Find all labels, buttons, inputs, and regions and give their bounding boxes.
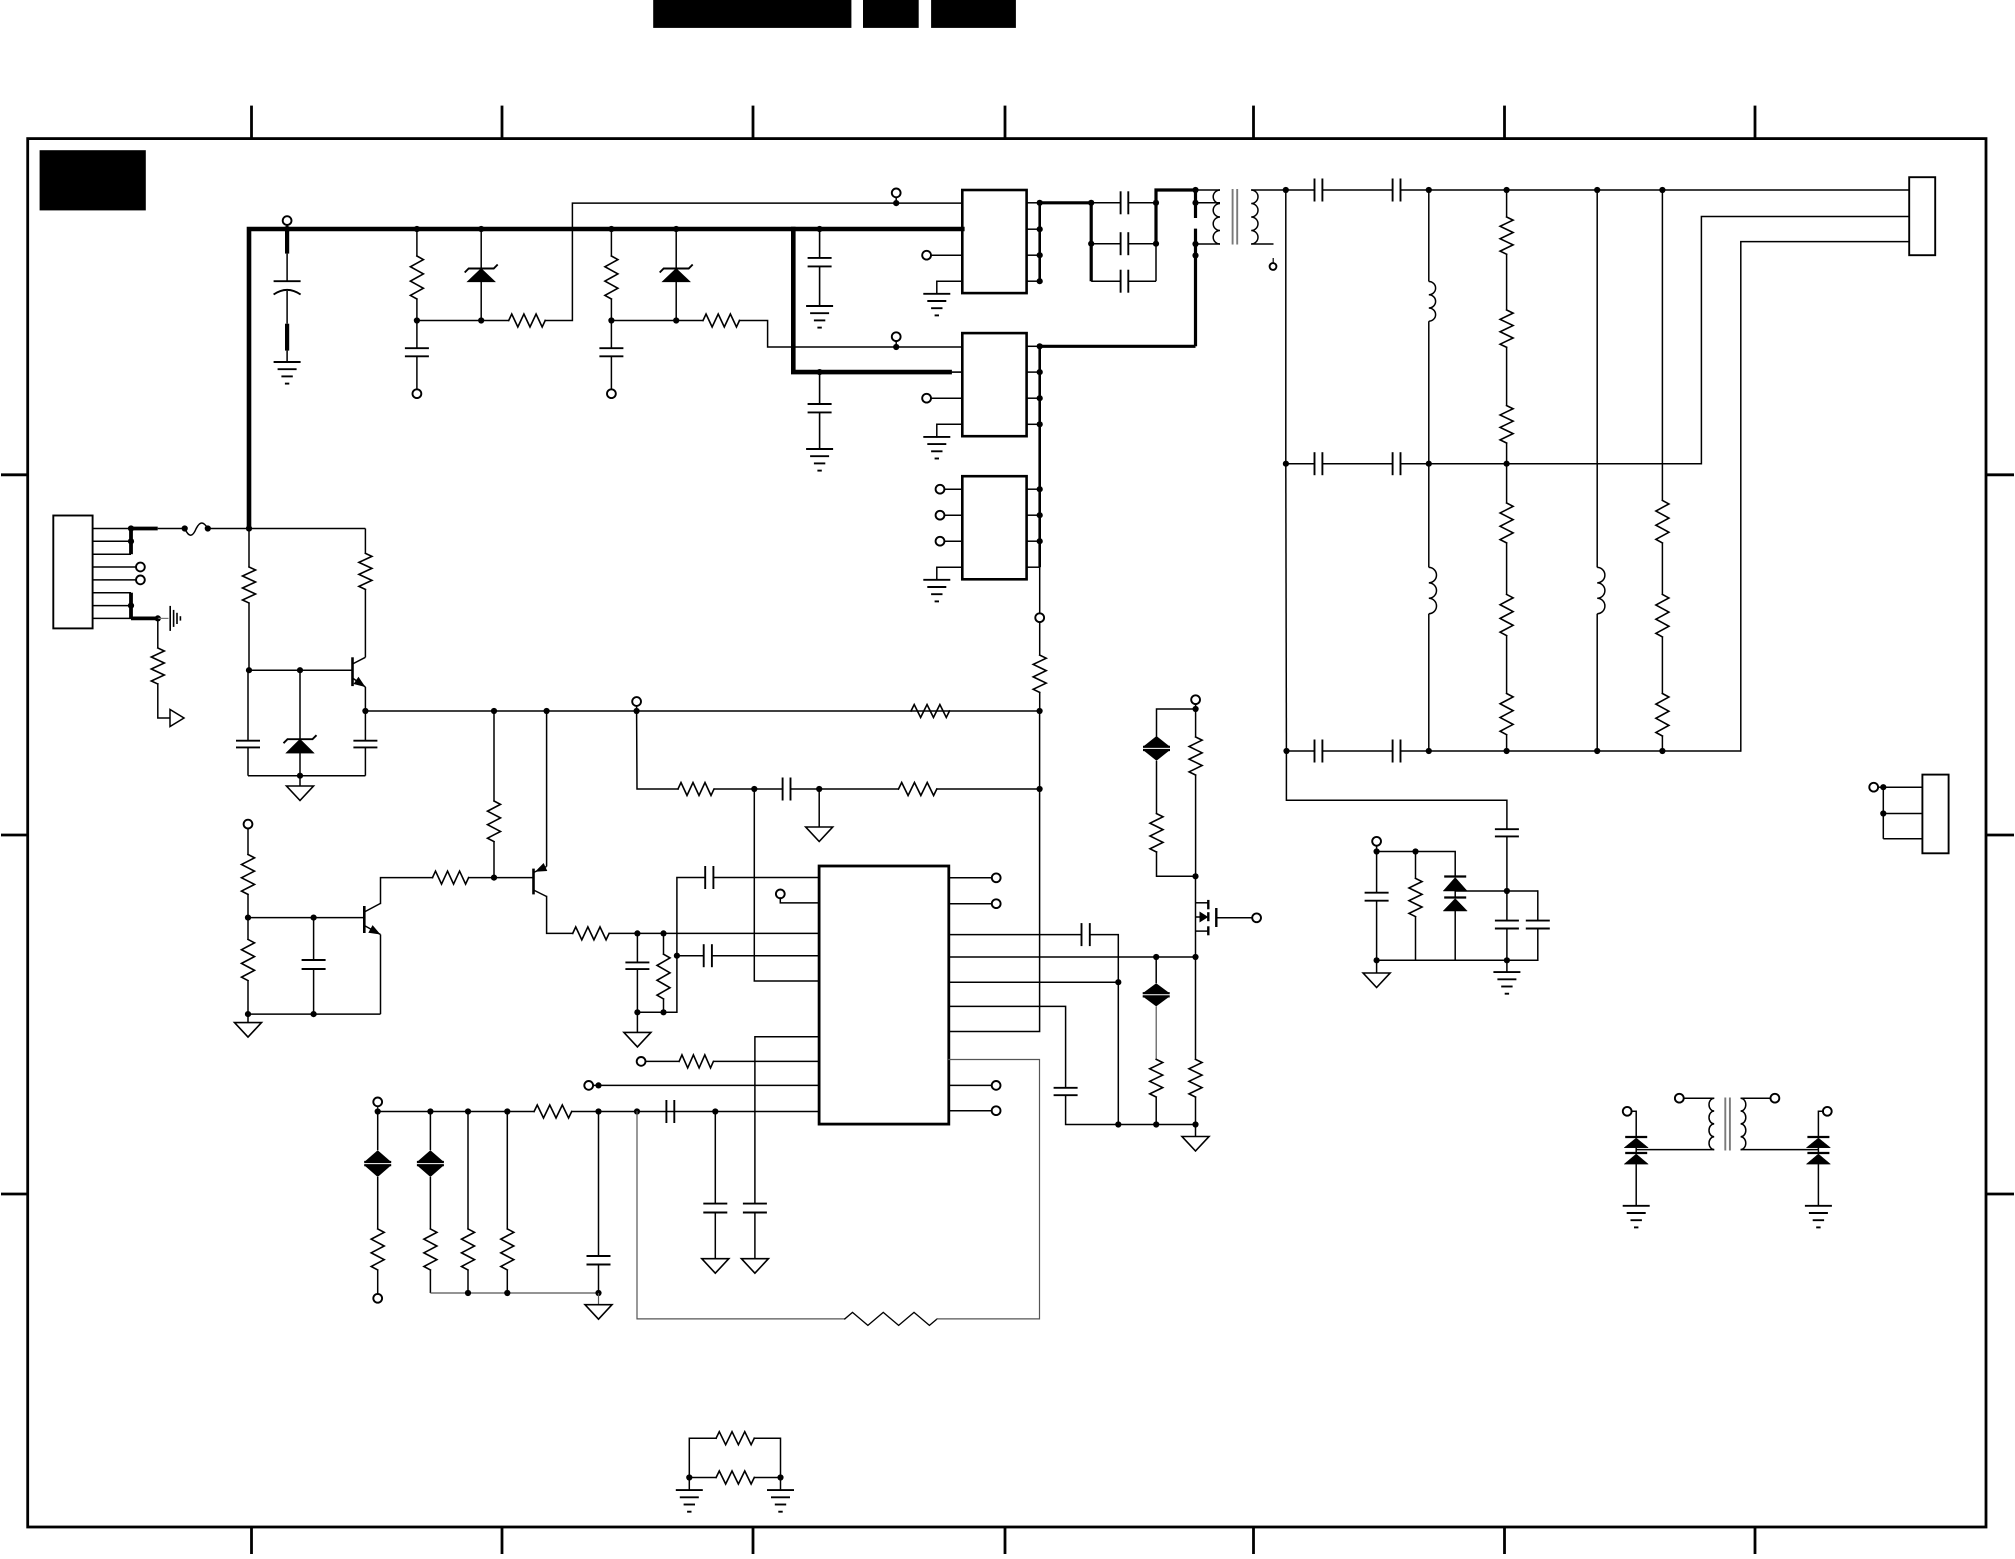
- ground U2 (earth): [923, 437, 950, 459]
- node ref rail 3: [595, 1290, 601, 1296]
- resistor R34: [1150, 814, 1163, 852]
- capacitor C1 electrolytic: [274, 229, 301, 362]
- wire fuse line to startup: [249, 528, 365, 530]
- node osc 1: [751, 786, 757, 792]
- wire CN1 pin3 stub: [93, 553, 131, 555]
- wire fb bus mid: [1039, 711, 1041, 789]
- node feedback 1: [893, 200, 899, 206]
- node zener D1 bottom: [478, 317, 484, 323]
- resistor R5 bleeder: [151, 648, 164, 684]
- wire R15 to node: [714, 788, 754, 790]
- node row3 v1: [1426, 748, 1432, 754]
- wire snub2 rail: [1377, 959, 1507, 961]
- wire snubber rail 2: [611, 320, 703, 322]
- wire snub2 top: [1377, 845, 1456, 876]
- node Q1 base rail left: [246, 667, 252, 673]
- node p9 n1: [375, 1108, 381, 1114]
- node p9 n2: [427, 1108, 433, 1114]
- capacitor C2 snubber: [405, 321, 429, 390]
- node sec low: [1283, 748, 1289, 754]
- node fb bus osc: [1037, 786, 1043, 792]
- node bus filter cap top: [817, 226, 823, 232]
- node p8 junction: [595, 1082, 601, 1088]
- node row1 v4: [1659, 187, 1665, 193]
- ground U3 (earth): [923, 580, 950, 602]
- resistor R2: [605, 229, 618, 321]
- wire U4 p8: [593, 1084, 819, 1086]
- wire opto bus U2-U3 (thick): [1038, 346, 1041, 567]
- node shunt right: [777, 1474, 783, 1480]
- wire CN3 pin3 stub: [1883, 838, 1922, 840]
- node zener D2 bottom: [673, 317, 679, 323]
- node p9 n7: [712, 1108, 718, 1114]
- capacitor C4: [236, 670, 260, 776]
- ground signal source rail: [1182, 1125, 1209, 1152]
- wire CN3 pin2 stub: [1883, 813, 1922, 815]
- ground snub2 (earth): [1493, 960, 1520, 993]
- suppressor Z4: [1143, 957, 1170, 1006]
- wire Q3 collector: [547, 897, 573, 934]
- wire CN1 pin2 stub: [93, 540, 131, 542]
- terminal U1 p3: [922, 251, 962, 260]
- op-amp U2 optocoupler: [962, 333, 1026, 436]
- resistor R9: [488, 801, 501, 842]
- node rail 2: [1153, 1121, 1159, 1127]
- node cap bus MR: [1153, 241, 1159, 247]
- terminal snubber 2: [607, 389, 616, 398]
- wire U1 r1 link (thick): [1040, 201, 1092, 204]
- capacitor C5: [353, 711, 377, 776]
- wire C24 to source bus: [1090, 935, 1119, 1125]
- wire CN1 pin7 stub: [93, 605, 131, 607]
- wire CN3 tie: [1878, 787, 1884, 839]
- wire Vcc terminal stub: [636, 706, 638, 711]
- node row2 v1: [1426, 461, 1432, 467]
- wire bulk cap stub: [286, 225, 288, 229]
- wire fb loop (gray): [637, 1112, 845, 1319]
- node Vcc terminal: [634, 708, 640, 714]
- fuse F1: [185, 523, 208, 535]
- wire Q1 base rail: [249, 669, 353, 671]
- transformer T1 secondary winding: [1251, 190, 1286, 244]
- capacitor C7: [625, 933, 649, 1012]
- resistor R8 in Vcc line: [911, 705, 950, 718]
- wire U4 r4 gate drive: [949, 956, 1196, 958]
- wire U2 pin stubs right: [1027, 346, 1040, 424]
- node T1 tap2: [1192, 241, 1198, 247]
- capacitor C9: [704, 944, 712, 967]
- node mains junction: [246, 525, 252, 531]
- wire cap bus right (thick): [1156, 190, 1196, 244]
- wire startup right upper: [364, 529, 366, 554]
- node U2 r1: [1037, 343, 1043, 349]
- terminal CN3: [1869, 783, 1878, 792]
- wire CN1 neutral tie (thick): [131, 593, 158, 619]
- resistor R30: [424, 1177, 437, 1293]
- wire fuse to bus corner: [208, 528, 249, 530]
- capacitor C27: [1495, 829, 1519, 891]
- wire row3 riser to CN2: [1741, 242, 1909, 751]
- wire R13 to U4: [609, 932, 819, 934]
- terminal T2 p2: [1771, 1094, 1780, 1103]
- node R1 top on bus: [414, 226, 420, 232]
- terminal snubber 1: [413, 389, 422, 398]
- node comp node 2: [660, 930, 666, 936]
- node CN3 pin1: [1880, 784, 1886, 790]
- connector CN1: [53, 516, 92, 629]
- transistor Q2 (NPN): [364, 903, 380, 934]
- wire row3: [1429, 750, 1741, 752]
- wire feedback to opto 1: [545, 203, 896, 320]
- capacitor C25: [1054, 1088, 1119, 1125]
- node p9 n4: [504, 1108, 510, 1114]
- diode D8: [1806, 1137, 1830, 1148]
- resistor R31: [462, 1112, 475, 1294]
- wire fb loop right (gray): [937, 1060, 1039, 1319]
- node fuse left: [182, 525, 188, 531]
- resistor R23: [1500, 636, 1513, 751]
- capacitor C10: [754, 778, 819, 801]
- resistor R38: [1409, 852, 1422, 961]
- wire osc to U4 p5: [754, 789, 819, 981]
- ground shunt left (earth): [676, 1478, 703, 1512]
- node feedback 2: [893, 344, 899, 350]
- resistor R29: [371, 1177, 384, 1294]
- resistor R25: [1656, 543, 1669, 637]
- node C6 bottom: [311, 1011, 317, 1017]
- capacitor C11: [1091, 191, 1156, 214]
- resistor R32: [501, 1112, 514, 1294]
- wire feedback 1 into U1: [896, 202, 962, 204]
- capacitor C29: [1507, 891, 1550, 960]
- transformer T1 core: [1233, 189, 1238, 245]
- node Q1 emitter: [362, 708, 368, 714]
- wire snubber rail 1: [417, 320, 509, 322]
- terminal U3 p3: [936, 537, 963, 546]
- resistor R18: [1500, 190, 1513, 254]
- wire CN1 pin1 to fuse (thick): [131, 527, 158, 531]
- terminal bulk cap test point: [283, 216, 292, 225]
- inductor L1: [1429, 190, 1436, 464]
- transformer T2 primary: [1636, 1098, 1714, 1149]
- wire comp rail: [637, 1011, 677, 1013]
- wire chassis link: [158, 617, 169, 619]
- ground signal osc: [806, 789, 833, 842]
- node Vcc tap 1: [491, 708, 497, 714]
- wire row1 to CN2: [1429, 189, 1909, 191]
- resistor R6 startup: [243, 567, 256, 603]
- wire Z4 to R36 (gray): [1155, 1006, 1157, 1059]
- wire CN1 pin6 stub: [93, 592, 131, 594]
- wire feedback to opto 2: [740, 321, 897, 348]
- resistor R39: [689, 1432, 780, 1478]
- node Q3 base rail: [491, 875, 497, 881]
- terminal U4 r9b: [949, 1106, 1001, 1115]
- ground chassis CN1: [170, 606, 180, 631]
- terminal U2 p3: [922, 394, 962, 403]
- node U3 r1: [1037, 486, 1043, 492]
- resistor R11: [242, 828, 255, 917]
- zener diode D3: [284, 670, 317, 776]
- node U2 r4: [1037, 421, 1043, 427]
- terminal feedback 1: [892, 189, 901, 204]
- wire T2 d2 lead: [1818, 1111, 1823, 1137]
- op-amp U1 optocoupler: [962, 190, 1026, 293]
- node R14 bottom: [660, 1009, 666, 1015]
- wire chain v3 upper: [1596, 190, 1598, 567]
- node Vcc tap 2: [544, 708, 550, 714]
- ground signal D3: [287, 776, 314, 801]
- diode D6: [1624, 1137, 1648, 1148]
- node drain: [1192, 873, 1198, 879]
- node row3 v3: [1594, 748, 1600, 754]
- offpage arrow left: [170, 710, 184, 727]
- inductor L2: [1429, 464, 1437, 751]
- terminal T2 d2 top: [1823, 1107, 1832, 1116]
- wire T2 d1 lead: [1631, 1111, 1636, 1137]
- node rail 1: [1115, 1121, 1121, 1127]
- wire CN1 pin4 stub: [93, 566, 137, 568]
- transistor Q3 (PNP): [534, 863, 548, 896]
- node cap bus TL: [1088, 200, 1094, 206]
- node CN1 pin7: [128, 603, 134, 609]
- wire row2 riser to CN2: [1701, 217, 1909, 464]
- ground shunt right (earth): [767, 1478, 794, 1512]
- node drain snub: [1193, 706, 1199, 712]
- wire mains bus B+ (thick): [249, 229, 962, 529]
- ground T2 right (earth): [1805, 1206, 1832, 1228]
- transformer T1 primary winding: [1196, 190, 1221, 244]
- wire R34 corner: [1157, 852, 1196, 876]
- capacitor C18: [1287, 740, 1393, 763]
- resistor R22: [1500, 543, 1513, 636]
- resistor R19: [1500, 254, 1513, 347]
- terminal Vcc: [632, 697, 641, 706]
- wire bleeder to arrow: [158, 684, 170, 718]
- redaction box sheet label: [40, 150, 146, 210]
- capacitor C20: [743, 1204, 767, 1259]
- capacitor C8: [705, 866, 713, 889]
- wire snub left branch: [1157, 709, 1196, 736]
- ground signal snub2: [1363, 960, 1390, 987]
- redaction box title 1: [653, 0, 851, 28]
- redaction box title 2: [863, 0, 919, 28]
- wire Q1 emitter: [364, 687, 366, 711]
- terminal fb bus: [1035, 567, 1044, 622]
- node Q2 base rail left: [245, 915, 251, 921]
- terminal CN1 pin4: [136, 563, 145, 572]
- node zener D3 top: [297, 667, 303, 673]
- capacitor C6: [302, 918, 326, 1015]
- capacitor C14: [1286, 179, 1393, 202]
- terminal U3 p1: [936, 485, 963, 494]
- wire Q1 collector: [364, 589, 366, 657]
- wire C9 to U4: [677, 955, 819, 957]
- capacitor C22: [587, 1112, 611, 1294]
- wire U4 r6: [949, 1006, 1066, 1087]
- resistor R24: [1656, 500, 1669, 543]
- transistor Q4 (MOSFET): [1196, 876, 1217, 957]
- node p9 n5: [595, 1108, 601, 1114]
- wire Q2 base rail: [248, 917, 364, 919]
- resistor R13: [573, 927, 609, 940]
- resistor R17 fb: [1033, 622, 1046, 711]
- node C6 top: [311, 915, 317, 921]
- wire startup left upper: [248, 529, 250, 568]
- terminal U4 r2: [949, 899, 1001, 908]
- wire Q2 emitter rail: [248, 1013, 381, 1015]
- wire divider 494 lower: [493, 842, 495, 878]
- wire T1 elbow to U2 (thick): [1040, 345, 1196, 348]
- suppressor Z2: [417, 1112, 444, 1178]
- node r4 source: [1192, 954, 1198, 960]
- ground U1 (earth): [923, 294, 950, 316]
- wire fb bus to U4 r7: [949, 789, 1040, 1032]
- transistor Q1 (NPN): [353, 657, 366, 687]
- wire Q4 gate: [1216, 917, 1252, 919]
- node bus return cap top: [817, 369, 823, 375]
- node p9 n6: [634, 1108, 640, 1114]
- node shunt left: [686, 1474, 692, 1480]
- node R2 top on bus: [608, 226, 614, 232]
- redaction box title 3: [931, 0, 1016, 28]
- wire cap bus left (thick): [1090, 203, 1093, 281]
- wire CN1 pin1 stub: [93, 528, 131, 530]
- resistor R26: [1656, 637, 1669, 751]
- node p4 tap: [674, 953, 680, 959]
- terminal ct ref: [373, 1098, 382, 1107]
- wire base rail to Q3: [494, 877, 534, 879]
- wire zener mid node: [1455, 891, 1538, 898]
- ground signal ref: [585, 1293, 612, 1319]
- inductor L3: [1597, 567, 1605, 751]
- node p9 n3: [465, 1108, 471, 1114]
- capacitor C23: [703, 1112, 727, 1259]
- terminal U4 p2: [776, 890, 785, 899]
- connector CN2: [1909, 177, 1935, 255]
- capacitor C16: [1286, 452, 1393, 475]
- ground C31 (earth): [806, 449, 833, 471]
- wire Q3 emitter: [546, 711, 548, 867]
- capacitor C31 bus return filter: [808, 372, 832, 449]
- wire U4 r3: [949, 934, 1082, 936]
- wire C8 to rail: [677, 878, 705, 1013]
- diode D7: [1624, 1148, 1648, 1206]
- capacitor C3 snubber: [599, 321, 623, 390]
- wire CN1 pin8 stub: [93, 617, 131, 619]
- wire U1 p2 stub: [950, 228, 963, 230]
- resistor R28: [534, 1105, 572, 1118]
- terminal Q4 gate: [1252, 913, 1261, 922]
- node r4 tvs: [1153, 954, 1159, 960]
- wire U2 p4 ground: [937, 424, 963, 437]
- node fuse right: [205, 525, 211, 531]
- node R12 bottom: [245, 1011, 251, 1017]
- terminal Q2 bias: [244, 820, 253, 829]
- node row1 v2: [1504, 187, 1510, 193]
- node D3 bottom: [297, 773, 303, 779]
- terminal feedback 2: [892, 332, 901, 347]
- capacitor C12: [1091, 232, 1156, 255]
- resistor R4 feedback: [703, 314, 740, 327]
- op-amp U3 optocoupler: [962, 476, 1026, 579]
- node sec rect top: [1283, 187, 1289, 193]
- node snub2 b: [1412, 848, 1418, 854]
- node osc 2: [816, 786, 822, 792]
- ground C30 (earth): [806, 306, 833, 328]
- node snub2 rail: [1374, 957, 1380, 963]
- wire row2: [1429, 463, 1702, 465]
- node row1 v1: [1426, 187, 1432, 193]
- connector CN3: [1922, 775, 1948, 854]
- capacitor C21: [666, 1100, 674, 1123]
- resistor R33: [845, 1312, 937, 1325]
- wire T1 primary spine (thick): [1194, 190, 1197, 346]
- capacitor C13: [1091, 270, 1156, 293]
- wire Q2 collector rail: [381, 878, 433, 904]
- node U1 r2: [1037, 226, 1043, 232]
- ground signal comp: [624, 1012, 651, 1047]
- node zener D1 top on bus: [478, 226, 484, 232]
- node U2 r2: [1037, 369, 1043, 375]
- resistor R21: [1500, 464, 1513, 543]
- capacitor C15: [1393, 179, 1429, 202]
- resistor R20: [1500, 347, 1513, 463]
- wire CN3 pin1 stub: [1883, 786, 1922, 788]
- node T1 tap1: [1192, 200, 1198, 206]
- zener diode D1: [465, 229, 498, 321]
- wire Q2 emitter: [380, 935, 382, 1015]
- terminal T2 p1: [1675, 1094, 1684, 1103]
- node row2 v2: [1504, 461, 1510, 467]
- terminal snub2: [1372, 837, 1381, 846]
- suppressor Z1: [364, 1112, 391, 1178]
- wire U1 p4 ground: [937, 281, 963, 294]
- wire chain v4 upper: [1661, 190, 1663, 500]
- capacitor C19: [1393, 740, 1429, 763]
- resistor R3 feedback: [509, 314, 546, 327]
- wire feedback 2 into U2: [896, 346, 962, 348]
- node U3 r3: [1037, 538, 1043, 544]
- wire divider 494 upper: [493, 711, 495, 801]
- terminal T2 d1 top: [1623, 1107, 1632, 1116]
- wire drain snub stub: [1195, 704, 1197, 709]
- node U1 r4: [1037, 278, 1043, 284]
- node r5 junction: [1115, 979, 1121, 985]
- diode D5: [1443, 898, 1467, 961]
- resistor R36: [1150, 1059, 1163, 1124]
- capacitor C30 bus filter: [808, 229, 832, 306]
- resistor R14: [657, 933, 670, 1012]
- wire U3 pin stubs right: [1027, 489, 1040, 567]
- ground signal Q2: [235, 1014, 262, 1037]
- node ref rail 1: [465, 1290, 471, 1296]
- resistor R12: [242, 918, 255, 1015]
- wire startup left lower: [248, 603, 250, 670]
- node cap bus TR: [1153, 200, 1159, 206]
- terminal U4 p7: [637, 1057, 646, 1066]
- node U1 r3: [1037, 252, 1043, 258]
- node T1 tap3: [1192, 252, 1198, 258]
- ground C1 (earth): [274, 362, 301, 384]
- capacitor C26: [1365, 852, 1389, 961]
- wire osc right: [819, 788, 898, 790]
- capacitor C17: [1393, 452, 1429, 475]
- terminal drain snub: [1191, 695, 1200, 704]
- wire CN1 pin5 stub: [93, 579, 137, 581]
- wire sec vertical: [1286, 190, 1507, 829]
- wire osc corner: [637, 711, 678, 789]
